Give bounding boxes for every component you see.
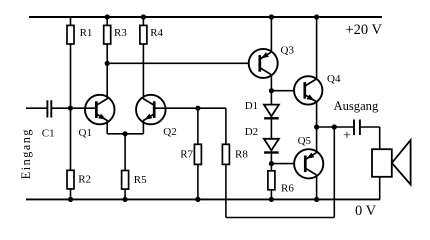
node R5 / ground rail junction [123,197,128,202]
wire input terminal to C1 [26,107,48,109]
node R7 / ground rail junction [195,197,200,202]
svg-text:Eingang: Eingang [19,128,33,179]
svg-text:R8: R8 [235,149,248,161]
transistor Q2 (NPN, mirrored) [136,95,166,125]
svg-text:0 V: 0 V [355,203,377,219]
node Q2 base wire / R7 junction [195,106,200,111]
wire 0V ground rail (bottom) [26,198,380,200]
wire R3 to Q1 collector [106,44,108,99]
wire node to Q5 base [271,163,294,165]
wire emitter node to R5 [124,134,126,171]
resistor R1 [67,25,74,44]
node Q4 emitter / Q5 emitter / output junction [314,124,319,129]
svg-text:R2: R2 [78,174,91,186]
node emitter bus / R5 junction [123,131,128,136]
wire R4 to Q2 collector [142,44,144,99]
node feedback / output junction [332,124,337,129]
node top rail / R4 junction [141,14,146,19]
node Q1 base / R1 / R2 junction [68,106,73,111]
wire Q4 emitter to output node [316,101,318,127]
wire D1 to D2 [270,120,272,139]
svg-text:R6: R6 [281,182,294,194]
loudspeaker LS (horn) [392,140,411,185]
svg-text:R1: R1 [80,27,93,39]
wire R1 to base node [70,44,72,108]
svg-text:R4: R4 [150,27,163,39]
wire R7 to ground rail [197,164,199,199]
wire feedback up to output [333,127,335,218]
wire output node to Q5 emitter [316,127,318,153]
svg-text:D2: D2 [245,126,258,138]
wire Q1 emitter to node [107,133,125,135]
transistor Q4 (NPN) [294,76,322,104]
resistor R4 [140,25,147,44]
wire Q3 collector down [270,74,272,91]
wire R2 to ground rail [70,189,72,200]
svg-text:Q4: Q4 [327,73,341,85]
wire R8 down through rail to feedback [225,164,227,217]
svg-text:Q3: Q3 [281,44,295,56]
wire top rail to Q4 collector [316,17,318,80]
diode D2 [264,139,279,153]
wire node to R6 [270,164,272,171]
transistor Q1 (NPN) [85,95,115,125]
wire top rail to R4 [142,17,144,25]
node top rail / Q4 junction [314,14,319,19]
wire speaker to ground rail [379,177,381,200]
wire Q2 emitter to node [125,133,143,135]
capacitor C2 (output, polarized) [354,120,360,136]
node top rail / R3 junction [105,14,110,19]
wire +20V supply rail (top) [29,16,382,18]
wire Q1 emitter down [106,120,108,133]
svg-text:R5: R5 [134,174,147,186]
wire Q5 collector to ground rail [316,175,318,200]
wire base wire to R7 [197,108,199,144]
wire down to speaker [379,127,381,149]
transistor Q5 (PNP) [294,149,323,178]
node Q5 / ground rail junction [314,197,319,202]
loudspeaker LS (box) [372,149,392,177]
svg-text:Q1: Q1 [79,127,92,139]
wire C2 to speaker corner [360,126,380,128]
node Q3 collector / D1 / Q4 base junction [269,88,274,93]
svg-text:+: + [343,129,351,144]
node R2 / ground rail junction [68,197,73,202]
svg-text:R7: R7 [180,149,193,161]
svg-text:Ausgang: Ausgang [334,99,379,113]
wire Q2 base to R7/R8 [155,107,226,109]
wire base node to R2 [70,108,72,170]
wire top rail to Q3 emitter [270,17,272,53]
resistor R3 [104,25,111,44]
svg-text:D1: D1 [245,100,258,112]
resistor R8 [222,144,229,164]
node R6 / ground rail junction [269,197,274,202]
wire output node to C2 [317,126,354,128]
wire node to D1 [270,91,272,105]
wire node to Q4 base [271,90,294,92]
svg-text:R3: R3 [114,27,127,39]
transistor Q3 (PNP) [249,49,278,78]
wire R6 to ground rail [270,190,272,200]
resistor R5 [122,171,129,190]
wire base wire corner to R8 [225,108,227,144]
svg-text:C1: C1 [42,128,55,140]
capacitor C1 [47,100,51,117]
wire top rail to R3 [106,17,108,25]
wire R5 to ground rail [124,189,126,199]
svg-text:Q2: Q2 [163,126,176,138]
resistor R6 [268,171,275,190]
diode D1 [264,105,279,119]
wire mirror node to Q3 base [107,62,249,64]
node top rail / Q3 junction [269,14,274,19]
wire feedback bottom run [226,217,334,219]
node R3 / mirror wire junction [105,61,110,66]
resistor R2 [67,170,74,189]
svg-text:Q5: Q5 [298,135,312,147]
wire Q2 emitter down [142,120,144,133]
resistor R7 [194,144,201,164]
wire C1 to Q1 base [51,107,96,109]
svg-text:+20 V: +20 V [346,22,383,38]
wire D2 to node [270,154,272,164]
wire top rail to R1 [70,17,72,25]
node D2 / R6 / Q5 base junction [269,161,274,166]
